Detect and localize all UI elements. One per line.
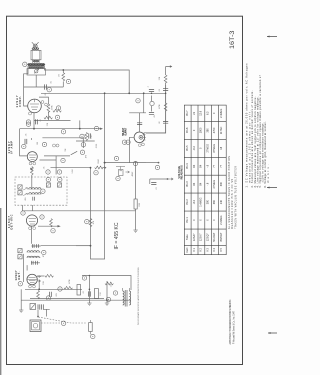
svg-text:Pin 7: Pin 7 — [186, 110, 189, 116]
svg-text:50L6GT: 50L6GT — [213, 232, 216, 242]
svg-text:V 3: V 3 — [206, 248, 209, 252]
svg-text:-6.2: -6.2 — [193, 146, 196, 151]
svg-text:CONV.: CONV. — [18, 96, 22, 107]
svg-text:27MEG: 27MEG — [213, 180, 216, 189]
svg-text:40MF: 40MF — [132, 171, 134, 177]
svg-text:380: 380 — [206, 199, 209, 204]
svg-text:150: 150 — [100, 292, 102, 295]
svg-text:470K: 470K — [69, 279, 71, 284]
svg-text:V 2: V 2 — [200, 248, 203, 252]
svg-text:3.3M: 3.3M — [72, 169, 74, 174]
svg-text:12.6: 12.6 — [200, 110, 203, 115]
svg-text:Item: Item — [186, 248, 189, 253]
svg-text:470K: 470K — [159, 104, 161, 109]
svg-text:OUTPUT: OUTPUT — [124, 127, 128, 135]
svg-text:IF AMP: IF AMP — [9, 141, 13, 154]
svg-text:330: 330 — [220, 182, 223, 187]
svg-text:47: 47 — [43, 255, 45, 257]
svg-text:87MEG: 87MEG — [213, 144, 216, 153]
svg-text:117AC: 117AC — [220, 126, 223, 134]
svg-text:V 1: V 1 — [193, 248, 196, 252]
svg-text:27MEG: 27MEG — [206, 144, 209, 153]
svg-text:35Z5GT: 35Z5GT — [220, 232, 223, 242]
svg-text:IF = 455 KC: IF = 455 KC — [114, 222, 120, 249]
svg-text:10M: 10M — [43, 281, 45, 285]
svg-text:.05: .05 — [51, 81, 53, 84]
svg-text:470: 470 — [86, 155, 88, 158]
svg-text:470K: 470K — [52, 105, 54, 110]
svg-text:SW: SW — [65, 148, 67, 151]
svg-text:4700: 4700 — [213, 127, 216, 133]
svg-text:A PHOTOFACT STANDARD NOTATION: A PHOTOFACT STANDARD NOTATION SCHEMATIC — [229, 299, 232, 344]
svg-text:.02: .02 — [159, 121, 161, 124]
svg-text:READINGS: READINGS — [180, 165, 184, 179]
svg-text:1200: 1200 — [139, 203, 141, 207]
svg-text:*TAKEN WITH VACUUM TUBE VOLTME: *TAKEN WITH VACUUM TUBE VOLTMETER — [234, 166, 237, 229]
svg-text:.1: .1 — [148, 86, 150, 88]
svg-text:12SQ7: 12SQ7 — [206, 233, 209, 241]
svg-text:455: 455 — [25, 197, 27, 200]
svg-text:.005: .005 — [56, 293, 58, 297]
svg-text:12SK7: 12SK7 — [200, 233, 203, 241]
svg-text:6.3: 6.3 — [206, 111, 209, 115]
svg-text:V 4: V 4 — [213, 248, 216, 252]
svg-text:DET.: DET. — [17, 271, 21, 279]
svg-text:Pin 3: Pin 3 — [186, 181, 189, 187]
svg-text:2.3MEG: 2.3MEG — [220, 215, 223, 224]
svg-text:140: 140 — [220, 199, 223, 204]
svg-text:380: 380 — [206, 128, 209, 133]
svg-text:Pin 2: Pin 2 — [186, 199, 189, 205]
svg-text:Pin 6: Pin 6 — [186, 127, 189, 133]
svg-text:-6.2: -6.2 — [193, 199, 196, 204]
svg-text:.02: .02 — [83, 291, 85, 294]
svg-text:.05: .05 — [159, 89, 161, 92]
svg-text:DET-AVC: DET-AVC — [9, 214, 13, 229]
svg-text:2.4MEG: 2.4MEG — [220, 109, 223, 118]
svg-text:Pin 4: Pin 4 — [186, 163, 189, 169]
svg-text:V 5: V 5 — [220, 248, 223, 252]
svg-text:100: 100 — [37, 142, 39, 145]
svg-text:1800: 1800 — [200, 127, 203, 133]
svg-text:.05: .05 — [45, 93, 47, 96]
svg-text:10MF: 10MF — [98, 158, 100, 164]
svg-text:© Howard W. Sams & Co., Inc. 1: © Howard W. Sams & Co., Inc. 1947 — [233, 310, 236, 344]
svg-text:.01: .01 — [40, 119, 42, 122]
svg-text:OSC: OSC — [91, 134, 93, 139]
svg-text:Pin 1: Pin 1 — [186, 217, 189, 223]
svg-text:.05: .05 — [44, 167, 46, 170]
svg-text:THIS SCHEMATIC SHOWS THE LATES: THIS SCHEMATIC SHOWS THE LATEST PRODUCTI… — [137, 266, 140, 325]
svg-text:12SA7: 12SA7 — [193, 233, 196, 241]
svg-text:360: 360 — [213, 199, 216, 204]
svg-text:1.4MEG: 1.4MEG — [200, 197, 203, 206]
svg-text:.0001: .0001 — [96, 144, 98, 149]
svg-text:.05: .05 — [154, 115, 156, 118]
svg-text:.05: .05 — [26, 134, 28, 137]
svg-text:1M: 1M — [59, 74, 61, 77]
svg-text:Pin 5: Pin 5 — [186, 145, 189, 151]
svg-text:Tube: Tube — [186, 234, 189, 240]
svg-text:16T-3: 16T-3 — [229, 30, 236, 49]
